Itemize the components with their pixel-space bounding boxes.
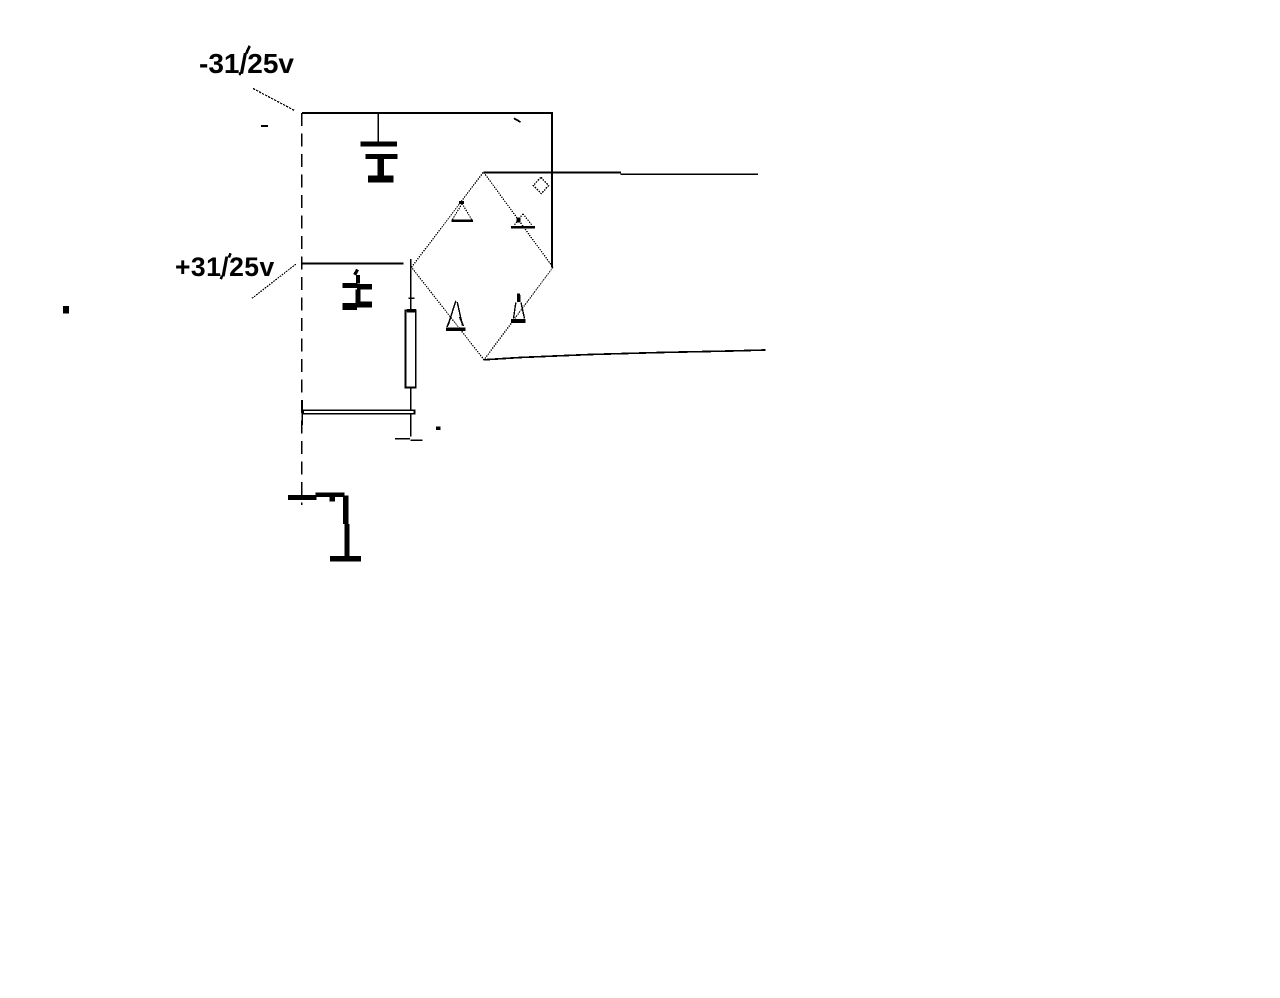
- svg-text:+31/25v: +31/25v: [175, 252, 275, 282]
